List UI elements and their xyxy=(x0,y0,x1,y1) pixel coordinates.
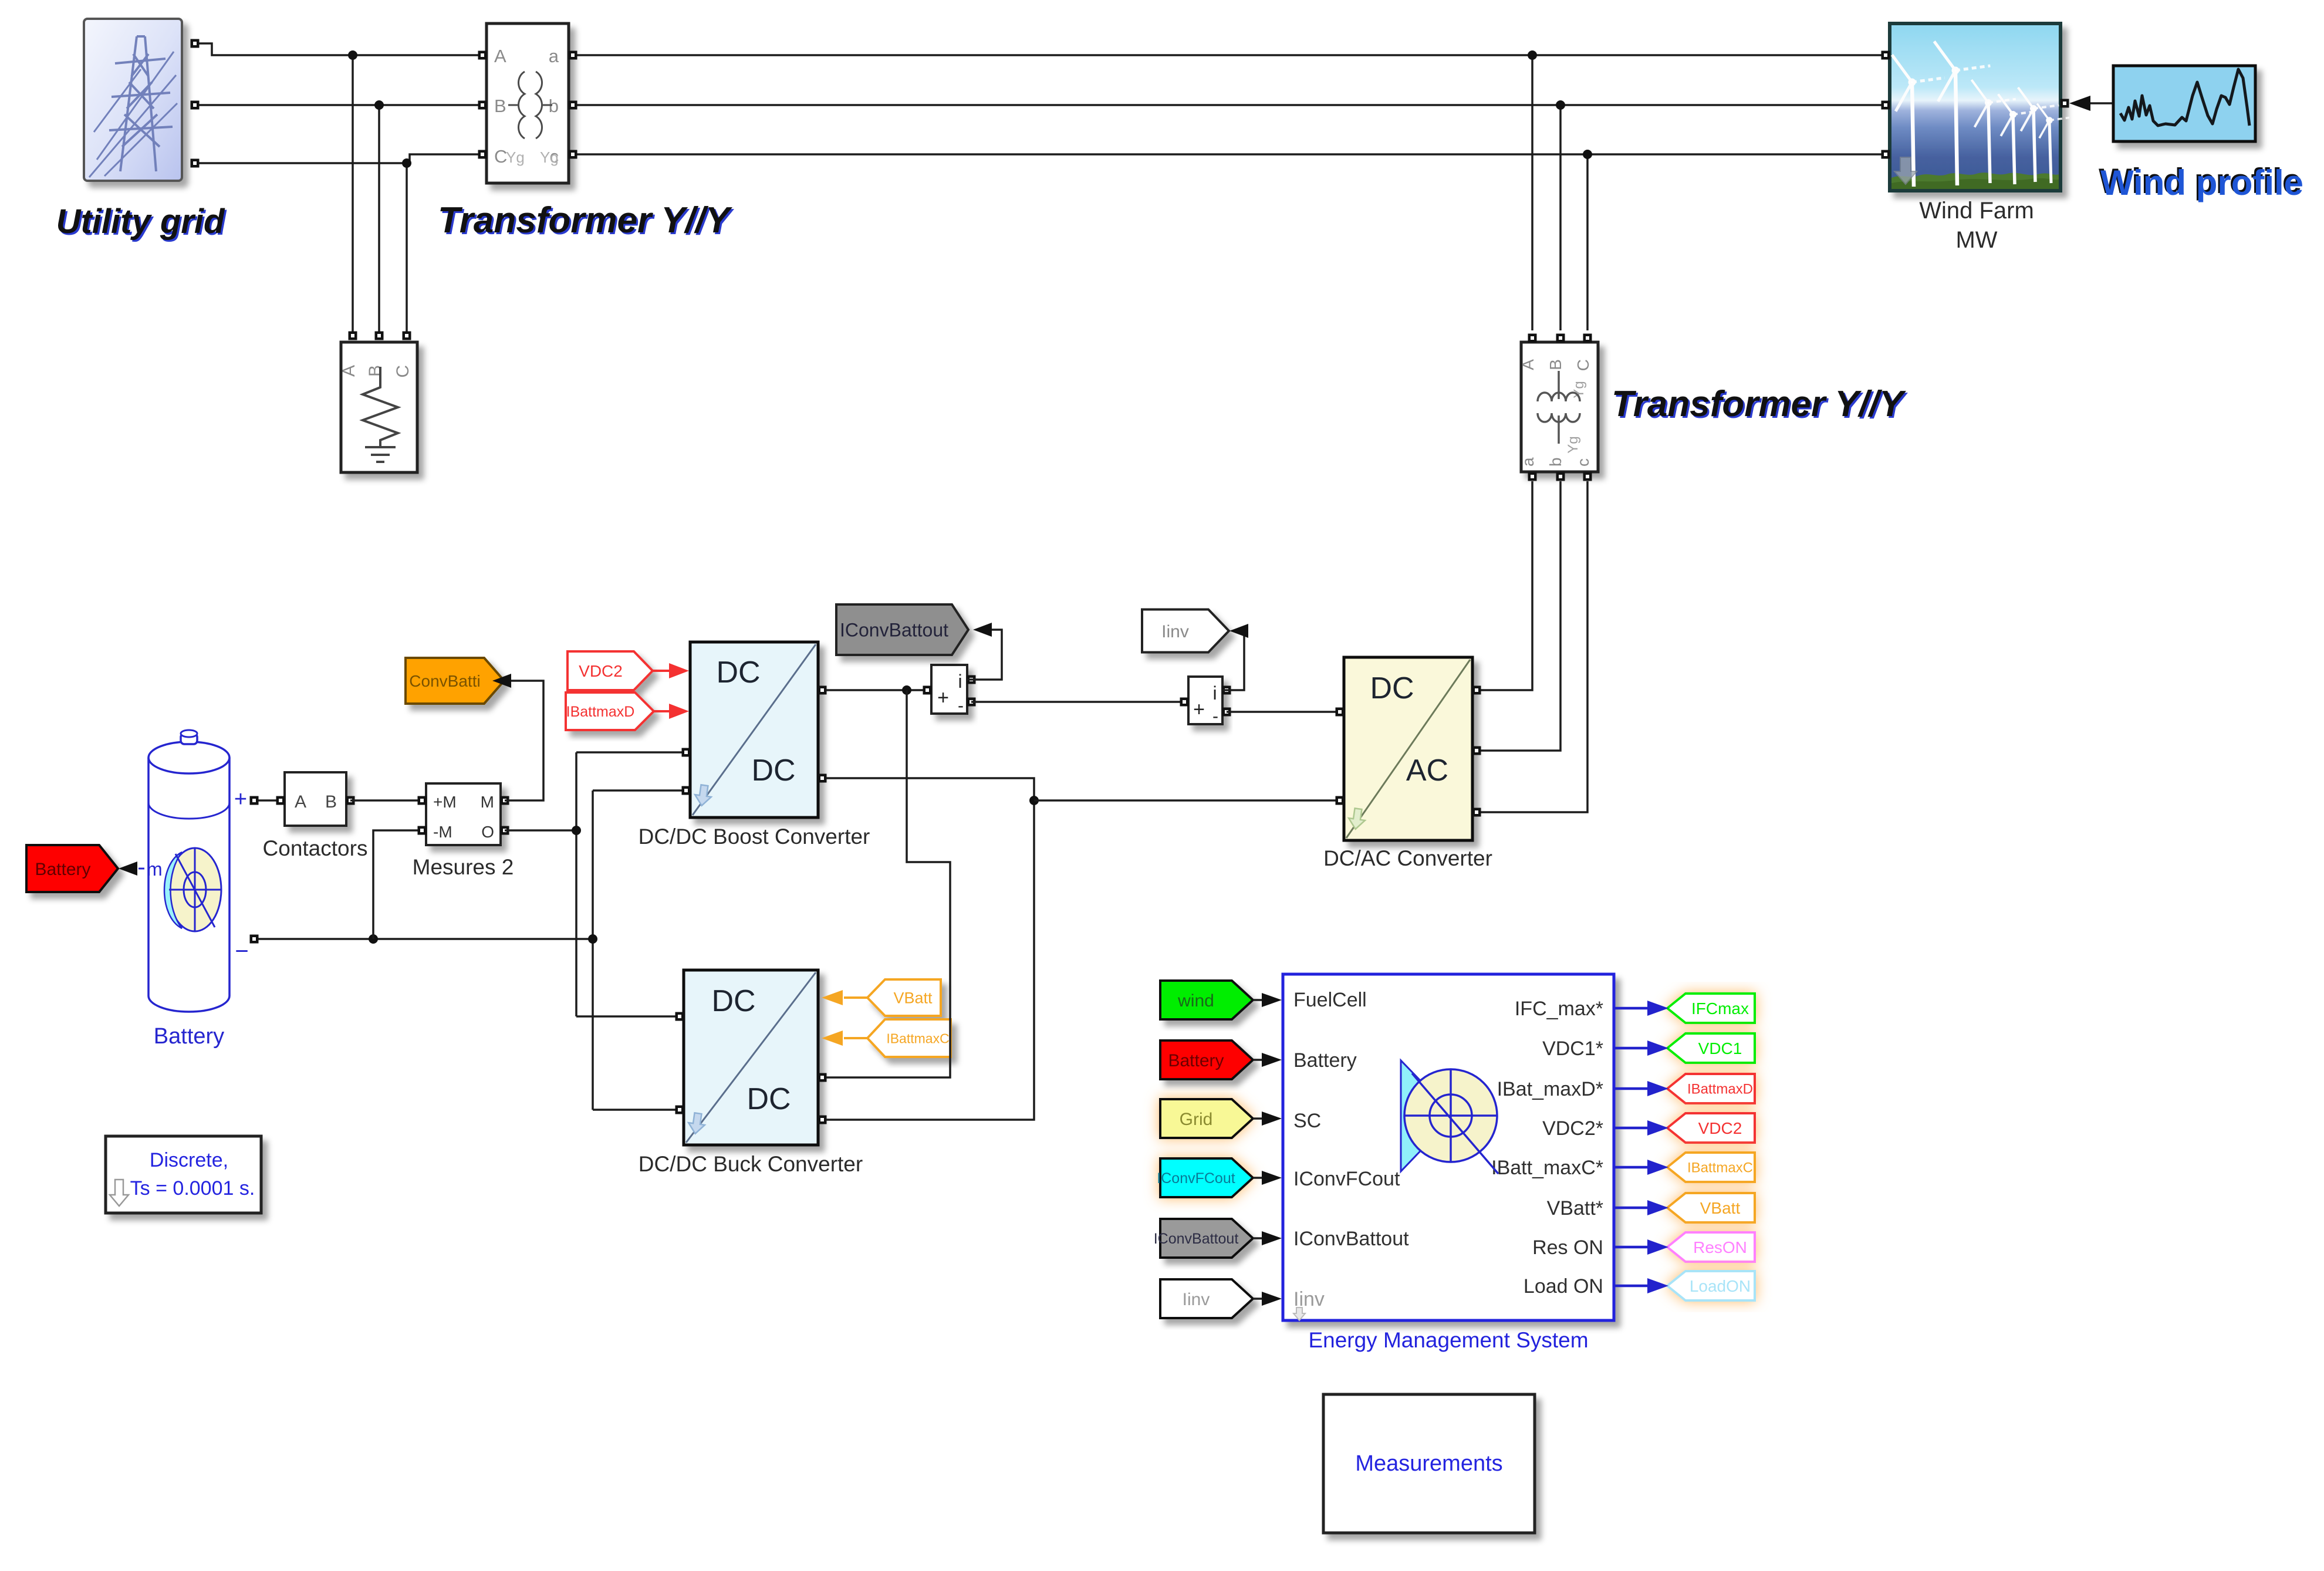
tag Grid from (EMS input) xyxy=(1160,1099,1253,1138)
label battery minus port xyxy=(235,938,248,964)
wire drop B to load xyxy=(374,100,384,332)
svg-text:B: B xyxy=(325,792,337,812)
svg-text:Load ON: Load ON xyxy=(1524,1275,1603,1298)
svg-text:VDC1*: VDC1* xyxy=(1542,1038,1603,1060)
wire sum1 to sum2 xyxy=(971,701,1180,703)
block Wind profile (signal source) xyxy=(2113,66,2255,141)
wire Iinv tag to EMS xyxy=(1253,1292,1282,1306)
wire phase A bus: Utility grid out1 to Transformer1 A xyxy=(198,43,478,55)
wire DC/AC out2 to Transformer2 b xyxy=(1481,481,1560,751)
wire EMS to VBatt tag (blue) xyxy=(1614,1200,1668,1215)
wire drop A to Transformer2 xyxy=(1528,50,1537,330)
wire phase C bus: Utility grid out3 to Transformer1 C xyxy=(198,154,478,163)
wire wind tag to EMS xyxy=(1253,993,1282,1007)
svg-text:Wind Farm: Wind Farm xyxy=(1919,198,2034,224)
wire Wind profile to Wind Farm xyxy=(2069,96,2113,111)
wire DC/AC out1 to Transformer2 a xyxy=(1481,481,1532,690)
svg-text:IConvBattout: IConvBattout xyxy=(1293,1228,1409,1250)
tag IConvFCout from (EMS input) xyxy=(1157,1158,1253,1197)
svg-text:IBattmaxC: IBattmaxC xyxy=(1687,1160,1753,1176)
wire EMS to VDC1 tag (blue) xyxy=(1614,1040,1668,1056)
tag Battery from (EMS input) xyxy=(1160,1040,1253,1079)
tag IBattmaxD goto (EMS output) xyxy=(1667,1074,1755,1103)
tag IBattmaxC goto (EMS output) xyxy=(1667,1153,1755,1182)
svg-text:wind: wind xyxy=(1177,991,1214,1011)
svg-text:VDC1: VDC1 xyxy=(1698,1039,1742,1058)
svg-text:a: a xyxy=(1519,457,1537,467)
svg-text:DC: DC xyxy=(751,754,795,788)
block Transformer2 Y//Y rotated xyxy=(1519,334,1598,481)
svg-text:IConvFCout: IConvFCout xyxy=(1293,1168,1400,1190)
wire EMS to IFCmax tag (blue) xyxy=(1614,1001,1668,1016)
svg-text:Discrete,: Discrete, xyxy=(150,1149,228,1171)
wire drop A to load xyxy=(348,50,357,332)
svg-text:Battery: Battery xyxy=(35,860,90,879)
label Wind profile xyxy=(2099,161,2303,202)
tag VDC2 from (red outline) xyxy=(568,651,653,690)
svg-text:Wind profile: Wind profile xyxy=(2100,163,2303,202)
wire EMS to IBattmaxC tag (blue) xyxy=(1614,1160,1668,1175)
wire Battery tag to EMS xyxy=(1253,1053,1282,1067)
tag IBattmaxC from (orange outline) xyxy=(867,1019,951,1057)
wire EMS to IBattmaxD tag (blue) xyxy=(1614,1081,1668,1096)
block Battery (cylinder icon) xyxy=(148,730,229,1012)
svg-text:IConvBattout: IConvBattout xyxy=(840,620,948,641)
svg-text:IConvFCout: IConvFCout xyxy=(1157,1170,1235,1187)
svg-text:Ts = 0.0001 s.: Ts = 0.0001 s. xyxy=(130,1177,255,1200)
wire minus to Mesures2 -M xyxy=(373,830,422,939)
wire drop C to load xyxy=(402,158,411,332)
svg-text:M: M xyxy=(481,793,494,811)
svg-text:b: b xyxy=(1546,457,1565,467)
block Transformer1 Y//Y three-phase xyxy=(478,23,577,183)
block three-phase series RLC load xyxy=(339,332,417,473)
block Measurements xyxy=(1323,1394,1535,1533)
tag VBatt goto (EMS output) xyxy=(1667,1193,1755,1222)
wire sum2 to DC/AC upper input xyxy=(1227,711,1336,713)
wire buck out1 up to junction xyxy=(826,690,950,1077)
block Wind Farm (subsystem with photo icon) xyxy=(1882,23,2070,191)
svg-text:C: C xyxy=(393,365,413,378)
svg-text:Yg: Yg xyxy=(1565,436,1581,453)
svg-text:VDC2: VDC2 xyxy=(1698,1119,1742,1137)
svg-text:B: B xyxy=(494,96,506,116)
label Contactors xyxy=(263,836,368,860)
wire IBattmaxD to boost xyxy=(653,704,689,719)
wire minus bus to converters minus xyxy=(588,790,682,1110)
tag Battery goto (red) xyxy=(26,845,118,892)
label DC/AC Converter xyxy=(1323,846,1492,870)
label Transformer Y//Y (right) xyxy=(1612,384,1908,426)
tag ResON goto (EMS output) xyxy=(1667,1232,1755,1262)
tag VDC2 goto (EMS output) xyxy=(1667,1113,1755,1143)
svg-text:-: - xyxy=(958,696,964,715)
wire VBatt to buck xyxy=(822,990,867,1005)
wire EMS to ResON tag (blue) xyxy=(1614,1239,1668,1255)
tag IConvBattout goto (gray) xyxy=(836,604,968,655)
wire drop B to Transformer2 xyxy=(1556,100,1565,330)
tag Iinv goto (white) xyxy=(1142,610,1229,653)
block Contactors xyxy=(276,772,355,826)
svg-text:DC: DC xyxy=(711,984,755,1018)
tag Iinv from (EMS input) xyxy=(1160,1279,1253,1318)
label Transformer Y//Y (top) xyxy=(438,200,735,242)
svg-text:FuelCell: FuelCell xyxy=(1293,989,1367,1011)
svg-text:VDC2*: VDC2* xyxy=(1542,1117,1603,1140)
label DC/DC Buck Converter xyxy=(639,1152,863,1176)
wire boost out1 to sum1 with buck branch xyxy=(826,685,923,695)
svg-text:IBattmaxC: IBattmaxC xyxy=(886,1031,949,1046)
svg-text:O: O xyxy=(481,823,494,841)
wire phase b bus: Transformer1 b to Wind Farm port2 xyxy=(577,104,1883,106)
svg-text:Battery: Battery xyxy=(154,1024,224,1049)
svg-text:Iinv: Iinv xyxy=(1161,622,1189,641)
svg-text:A: A xyxy=(1519,359,1537,370)
svg-text:A: A xyxy=(339,365,359,377)
svg-text:Transformer Y//Y: Transformer Y//Y xyxy=(1612,384,1907,424)
svg-text:MW: MW xyxy=(1955,227,1997,253)
wire battery m to Battery tag xyxy=(119,859,163,880)
svg-text:A: A xyxy=(494,46,506,66)
svg-text:Battery: Battery xyxy=(1168,1051,1224,1070)
tag VBatt from (orange outline) xyxy=(867,979,941,1016)
svg-text:DC/DC Boost Converter: DC/DC Boost Converter xyxy=(639,825,870,849)
svg-text:DC: DC xyxy=(746,1082,791,1116)
wire junction to DC/AC lower input xyxy=(1034,799,1336,802)
svg-text:VBatt*: VBatt* xyxy=(1547,1197,1603,1219)
svg-text:Yg: Yg xyxy=(540,148,559,166)
tag IBattmaxD from (red outline) xyxy=(566,692,654,730)
svg-text:LoadON: LoadON xyxy=(1690,1277,1751,1295)
wire phase B bus: Utility grid out2 to Transformer1 B xyxy=(198,104,478,106)
svg-text:DC/DC Buck Converter: DC/DC Buck Converter xyxy=(639,1152,863,1176)
svg-text:IConvBattout: IConvBattout xyxy=(1154,1231,1239,1247)
svg-text:Energy Management System: Energy Management System xyxy=(1308,1328,1588,1352)
label battery plus port xyxy=(234,787,247,812)
svg-text:Contactors: Contactors xyxy=(263,836,368,860)
svg-text:DC: DC xyxy=(1370,671,1414,705)
label DC/DC Boost Converter xyxy=(639,825,870,849)
wire Mesures2 O junction to converters plus xyxy=(505,752,682,1016)
tag IFCmax goto (EMS output) xyxy=(1667,994,1755,1023)
wire IConvBattout tag to EMS xyxy=(1253,1231,1282,1245)
tag LoadON goto (EMS output) xyxy=(1667,1271,1755,1300)
label Energy Management System xyxy=(1308,1328,1588,1352)
wire VDC2 to boost xyxy=(653,663,689,678)
svg-text:DC: DC xyxy=(716,656,760,690)
svg-text:IBattmaxD: IBattmaxD xyxy=(1687,1082,1753,1097)
svg-text:i: i xyxy=(1212,683,1217,704)
svg-text:Mesures 2: Mesures 2 xyxy=(413,855,514,879)
svg-text:IFC_max*: IFC_max* xyxy=(1515,998,1603,1020)
svg-text:Res ON: Res ON xyxy=(1532,1236,1603,1259)
svg-text:-M: -M xyxy=(433,823,452,841)
svg-text:C: C xyxy=(1574,359,1592,371)
label Battery (block caption) xyxy=(154,1024,224,1049)
block Utility grid (three-phase source) xyxy=(84,19,200,181)
svg-text:a: a xyxy=(549,46,559,66)
svg-text:A: A xyxy=(295,792,306,812)
wire IBattmaxC to buck xyxy=(822,1031,867,1046)
tag IConvBattout from (EMS input) xyxy=(1154,1219,1253,1258)
svg-text:Transformer Y//Y: Transformer Y//Y xyxy=(438,200,733,241)
svg-text:c: c xyxy=(1574,458,1592,467)
svg-text:Measurements: Measurements xyxy=(1355,1451,1502,1476)
svg-text:i: i xyxy=(958,671,962,692)
wire EMS to VDC2 tag (blue) xyxy=(1614,1120,1668,1136)
block Discrete powergui xyxy=(106,1136,261,1213)
svg-text:Utility grid: Utility grid xyxy=(56,202,225,241)
block DC/DC Boost Converter xyxy=(682,642,827,817)
wire Grid tag to EMS xyxy=(1253,1111,1282,1126)
svg-text:+: + xyxy=(937,687,949,709)
svg-text:B: B xyxy=(1546,359,1565,370)
svg-text:Battery: Battery xyxy=(1293,1049,1357,1072)
wire phase c bus: Transformer1 c to Wind Farm port3 xyxy=(577,153,1883,156)
wire Mesures2 M to ConvBatti tag xyxy=(492,674,543,800)
svg-text:AC: AC xyxy=(1406,754,1448,788)
svg-text:VDC2: VDC2 xyxy=(579,662,623,680)
block current sum 2 (+ i -) xyxy=(1180,677,1231,726)
block Mesures 2 xyxy=(418,783,509,845)
svg-text:IBattmaxD: IBattmaxD xyxy=(566,704,635,720)
svg-text:SC: SC xyxy=(1293,1110,1321,1132)
wire sum1 i out to IConvBattout tag xyxy=(967,623,1002,680)
block DC/AC Converter xyxy=(1336,657,1481,840)
block DC/DC Buck Converter xyxy=(675,970,827,1145)
tag wind from (EMS input) xyxy=(1160,981,1253,1019)
wire phase a bus: Transformer1 a to Wind Farm port1 xyxy=(577,54,1883,56)
wire IConvFCout tag to EMS xyxy=(1253,1171,1282,1185)
wire EMS to LoadON tag (blue) xyxy=(1614,1278,1668,1293)
svg-text:DC/AC Converter: DC/AC Converter xyxy=(1323,846,1492,870)
wire Contactors B to Mesures2 +M xyxy=(350,799,422,802)
svg-text:m: m xyxy=(147,859,163,880)
tag VDC1 goto (EMS output) xyxy=(1667,1033,1755,1063)
svg-text:IBat_maxD*: IBat_maxD* xyxy=(1497,1078,1603,1100)
block current sum 1 (+ i -) xyxy=(923,665,976,715)
label Utility grid xyxy=(56,202,227,242)
wire DC/AC out3 to Transformer2 c xyxy=(1481,481,1587,812)
wire sum2 i out to Iinv tag xyxy=(1222,624,1248,690)
wire battery plus to Contactors xyxy=(250,796,281,805)
svg-text:IBatt_maxC*: IBatt_maxC* xyxy=(1491,1157,1603,1179)
block Energy Management System xyxy=(1283,974,1614,1320)
svg-text:+: + xyxy=(234,787,247,812)
wire battery minus bus xyxy=(250,934,593,944)
svg-text:Grid: Grid xyxy=(1180,1110,1213,1129)
tag ConvBatti goto (orange) xyxy=(406,658,504,704)
svg-text:VBatt: VBatt xyxy=(1700,1199,1741,1217)
svg-text:VBatt: VBatt xyxy=(893,989,933,1007)
svg-text:ResON: ResON xyxy=(1693,1238,1747,1256)
svg-text:−: − xyxy=(235,938,248,964)
svg-text:+M: +M xyxy=(433,793,457,811)
svg-text:ConvBatti: ConvBatti xyxy=(409,672,480,690)
svg-text:Iinv: Iinv xyxy=(1183,1290,1210,1309)
svg-text:Yg: Yg xyxy=(506,148,525,166)
svg-text:B: B xyxy=(366,365,385,377)
label Wind Farm MW xyxy=(1919,198,2034,253)
svg-text:+: + xyxy=(1193,698,1205,721)
svg-text:IFCmax: IFCmax xyxy=(1691,999,1749,1018)
svg-text:-: - xyxy=(1212,707,1218,726)
wire drop C to Transformer2 xyxy=(1583,150,1592,330)
wire boost out2 down and buck out2 xyxy=(826,778,1039,1120)
label Mesures 2 xyxy=(413,855,514,879)
